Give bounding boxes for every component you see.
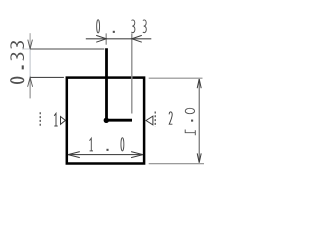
bottom text 1 . 0 [90,138,124,151]
pin 2 triangle [146,116,153,125]
pin 1 triangle [61,117,66,125]
left dim line lower tail [29,77,31,98]
right dimension line 1.0 [198,79,200,163]
gray reference line x=132.2 [131,33,133,113]
right dim extension bottom y=163.7 [149,163,204,165]
left dim lower arrow (points up) [28,77,33,86]
gray extension above top dim at x=106.2 [105,33,107,44]
component body square [67,78,144,164]
lead horizontal thick line [107,119,133,122]
pin 1 label [54,113,58,126]
lead vertical thick line [105,48,108,120]
pin 2 dashed line [154,112,156,127]
left dim line faint middle [29,49,31,77]
bottom dimension line 1.0 [68,154,143,156]
top dimension line 0.33 [86,38,152,40]
pin 2 label [169,112,172,124]
left dim upper arrow (points down) [28,40,33,49]
left dim line upper tail [29,33,31,49]
origin dot [104,118,109,123]
right dim bottom arrow (points down) [197,153,201,162]
left text 0.33 rotated [11,42,24,83]
top dim right arrow (points left) [132,35,142,42]
left upper extension overshoot [22,48,30,50]
right dim top arrow (points up) [197,79,201,88]
right dim extension top y=78.2 [149,77,203,79]
pin 1 dashed line [39,112,41,126]
left upper extension line y=49 [30,48,104,50]
right text 1.0 rotated [185,108,195,135]
bottom dim left arrow (points left) [68,152,80,158]
top text 0 . 3 3 [97,20,147,33]
left lower extension line y=77.4 [30,76,64,78]
bottom dim right arrow (points right) [131,152,143,158]
top dim left arrow (points right) [96,35,106,42]
